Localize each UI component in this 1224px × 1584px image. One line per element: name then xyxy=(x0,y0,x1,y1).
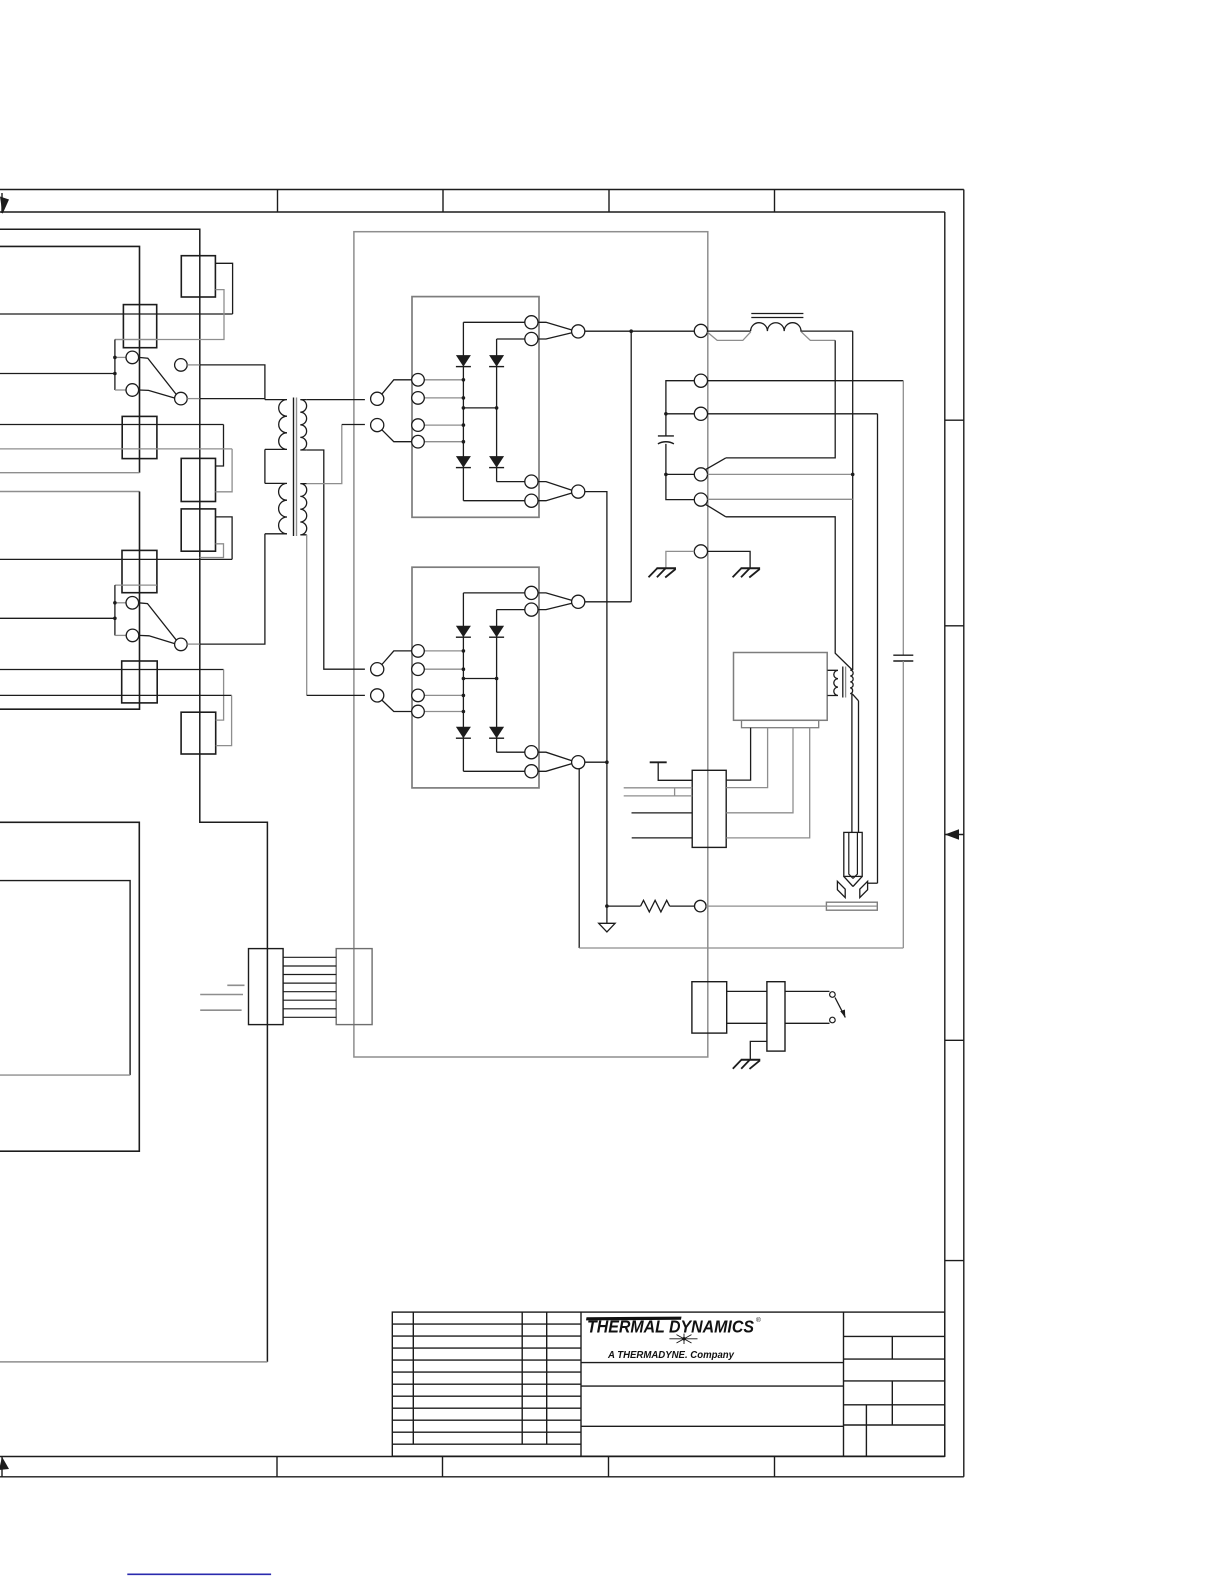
top band zone tick 4 xyxy=(774,190,776,213)
pilot network xyxy=(706,381,914,948)
blade BR1 mate1-in1 xyxy=(382,380,412,394)
drawing number cell line xyxy=(581,1425,844,1427)
capacitor C1 column xyxy=(658,381,694,500)
wire BR1 in stub3 xyxy=(424,424,463,426)
info divider b2 xyxy=(891,1381,893,1425)
electrode chevron right xyxy=(860,881,868,897)
input module enclosure outline xyxy=(0,229,267,1362)
hf transformer T2 xyxy=(827,667,858,833)
stub wire a xyxy=(227,984,244,986)
bridge rectifier BR2 xyxy=(371,567,585,788)
component box (lower-left outer) xyxy=(0,822,139,1151)
L1 core line 2 xyxy=(751,317,803,319)
wire TB2 row4 to J4 gray xyxy=(0,694,232,696)
T1 secondary lower winding xyxy=(300,484,306,535)
wire L1 tap drop xyxy=(726,340,835,458)
node C1 top tee xyxy=(664,412,668,416)
wire S2 link vertical xyxy=(114,585,116,635)
wire torch lead diagonal xyxy=(852,694,858,701)
pin BR1 out1 xyxy=(525,316,538,329)
node L1 end tap xyxy=(851,473,855,477)
node BR2 in1 xyxy=(462,649,466,653)
ground G2 bar xyxy=(741,567,761,569)
blade S2 B-D xyxy=(139,635,175,643)
wire J2 to K2 riser xyxy=(215,425,223,467)
ribbon connector left xyxy=(249,949,284,1025)
plasma torch TORCH1 xyxy=(826,832,877,910)
pin P6 earth xyxy=(694,545,707,558)
blade S2 A-D xyxy=(139,603,177,640)
wire S1-C stub to bus xyxy=(187,364,200,366)
wire P3 right xyxy=(708,413,878,415)
wire resistor lead right xyxy=(670,905,695,907)
ribbon wire 1 xyxy=(283,956,336,958)
switch body box xyxy=(767,982,785,1051)
wire T1 sec2 bottom drop xyxy=(306,535,308,696)
wire P4 stub xyxy=(666,473,694,475)
pin BR1 out3 xyxy=(525,475,538,488)
border top outer line xyxy=(0,189,964,191)
node S1 link junction A xyxy=(113,356,117,360)
wire cap drop lower xyxy=(902,661,904,948)
wire J1 to K1 riser xyxy=(215,263,232,314)
wire S2-D stub to bus xyxy=(187,643,200,645)
pin BR1 in2 xyxy=(412,392,425,405)
info divider b1 xyxy=(891,1336,893,1359)
relay K2 box xyxy=(181,458,215,501)
wire pos join drop xyxy=(630,331,632,602)
title block outline xyxy=(392,1312,945,1456)
wire torch lead 1 xyxy=(851,694,853,833)
logo starburst ray diag2 xyxy=(677,1335,692,1343)
wire BR2 top out xyxy=(463,592,524,594)
wire BR1 out2 stub xyxy=(497,338,525,340)
svg-text:®: ® xyxy=(756,1316,761,1324)
electrode chevron left xyxy=(837,881,845,897)
node pos join xyxy=(629,329,633,333)
wire BR2 bottom out xyxy=(463,770,524,772)
bottom-left zone arrow head xyxy=(0,1457,9,1470)
node BR2 in3 xyxy=(462,694,466,698)
torch tip right xyxy=(853,876,862,886)
wire T1 sec1 top to BR1 xyxy=(307,399,365,401)
wire TB2 row1 to J3 and K3 xyxy=(0,558,232,560)
wire BR2 out2 stub xyxy=(497,609,525,611)
wire resistor lead left xyxy=(607,905,641,907)
contact S1-B xyxy=(126,384,139,397)
blade BR2 out4-neg xyxy=(538,764,572,772)
pin BR1 out2 xyxy=(525,332,538,345)
logo starburst ray horizontal xyxy=(669,1338,697,1340)
blade BR1 out3-neg xyxy=(538,482,572,491)
diode D3 xyxy=(456,456,471,468)
wire CN1 pin1 to PCB1 xyxy=(726,728,750,780)
wire CN2 link 1 xyxy=(727,990,767,992)
wire P5 to T2 xyxy=(726,517,853,670)
info row 5 xyxy=(844,1424,945,1426)
svg-text:THERMAL DYNAMICS: THERMAL DYNAMICS xyxy=(587,1317,754,1337)
pin BR2 in2 xyxy=(412,663,425,676)
revision table bottom xyxy=(392,1443,581,1445)
L1 winding xyxy=(751,323,853,331)
node BR1 link left xyxy=(462,406,466,410)
node BR2 in2 xyxy=(462,667,466,671)
pin BR1 out4 xyxy=(525,494,538,507)
node BR2 link left xyxy=(462,677,466,681)
wire BR1 mate2 feed xyxy=(342,424,365,426)
inductor L1 xyxy=(706,314,855,671)
plug BR2 neg xyxy=(572,756,585,769)
ground G1 hatch 1 xyxy=(649,569,658,578)
wire S2 stub B xyxy=(115,634,126,636)
capacitor C2 plate 2 xyxy=(893,660,913,662)
wire torch lead 2 xyxy=(858,701,860,833)
ribbon wire 8 xyxy=(283,1016,336,1018)
relay K4 box xyxy=(181,712,216,754)
info row 4 xyxy=(844,1404,945,1406)
ground G2 hatch 1 xyxy=(733,569,742,578)
revision table column b xyxy=(521,1312,523,1444)
ribbon wire 2 xyxy=(283,965,336,967)
hyperlink underline xyxy=(127,1573,271,1575)
center module outline xyxy=(354,232,708,1057)
ribbon wire 3 xyxy=(283,974,336,976)
info divider a1 xyxy=(865,1405,867,1456)
relay K3 box xyxy=(181,509,215,551)
right border zone tick y1261 xyxy=(945,1260,964,1262)
ribbon wire 6 xyxy=(283,999,336,1001)
revision row 7 xyxy=(392,1395,581,1397)
wire P4 to L1 end xyxy=(708,473,853,475)
wire BR1 bottom out xyxy=(463,500,524,502)
ground G3 hatch 2 xyxy=(741,1060,750,1069)
pin BR2 in4 xyxy=(412,705,425,718)
pin BR1 in1 xyxy=(412,374,425,387)
connector J4 (lower block) xyxy=(122,661,158,703)
right border zone tick y626 xyxy=(945,625,964,627)
node C1 bottom tee xyxy=(664,473,668,477)
BR2 module box xyxy=(412,567,539,788)
capacitor C1 plate bottom xyxy=(658,442,674,444)
pin work sense xyxy=(695,900,707,912)
node BR2 in4 xyxy=(462,710,466,714)
wire BR2 branch1 xyxy=(462,593,464,771)
wire CN2 link 2 xyxy=(727,1022,767,1024)
relay K1 box xyxy=(181,256,215,297)
T2 secondary winding xyxy=(850,670,853,694)
diode D2 xyxy=(489,355,504,367)
blade BR2 out1-pos xyxy=(538,593,572,601)
border right inner line xyxy=(944,212,946,1457)
wire L1 bypass right xyxy=(801,332,835,341)
node S1 feed junction xyxy=(113,372,117,376)
wire switch lead 2 xyxy=(785,1022,830,1024)
contact S2-B xyxy=(126,629,139,642)
pin BR1 in4 xyxy=(412,435,425,448)
title block xyxy=(392,1312,945,1456)
node BR1 in2 xyxy=(462,396,466,400)
T2 core line 1 xyxy=(842,667,844,698)
wire BR1 in stub4 xyxy=(424,441,463,443)
border bottom outer line xyxy=(0,1476,964,1478)
info row 1 xyxy=(844,1335,945,1337)
connector CN2 box xyxy=(692,982,727,1033)
logo cell bottom xyxy=(581,1362,844,1364)
dc bus wiring xyxy=(579,329,694,948)
wire BR1 neg out xyxy=(585,492,607,906)
blade S1 B-D xyxy=(139,390,175,398)
wire S2 stub A xyxy=(115,602,126,604)
wire chevron to work lead xyxy=(868,882,878,884)
ribbon wire 7 xyxy=(283,1008,336,1010)
torch inner line 1 xyxy=(849,832,853,878)
blade PS arrowhead xyxy=(840,1010,845,1018)
wire BR2 ac link xyxy=(463,678,496,680)
wire C1 lower link xyxy=(666,444,694,500)
border bottom inner line xyxy=(0,1456,945,1458)
right border reference arrow head xyxy=(945,829,959,840)
ground G1 hatch 3 xyxy=(665,569,675,578)
wire T1 primary bottom to S2-D xyxy=(200,534,265,644)
wire BR1 branch2 xyxy=(496,339,498,482)
blade BR2 out3-neg xyxy=(538,752,572,761)
info row 2 xyxy=(844,1358,945,1360)
plug BR2 pos xyxy=(572,595,585,608)
wire BR2 in stub2 xyxy=(424,668,463,670)
top-left zone arrow stem xyxy=(1,193,3,213)
wire T1 sec1 bottom to BR2 xyxy=(307,450,365,669)
wire S1 stub B xyxy=(115,389,126,391)
BR1 module box xyxy=(412,297,539,518)
resistor R1 xyxy=(641,900,670,912)
wire BR2 neg drop xyxy=(578,769,580,948)
pin P5 xyxy=(694,493,707,506)
stub wire c xyxy=(200,1009,241,1011)
wire negative bus xyxy=(579,947,903,949)
blade BR1 out1-pos xyxy=(538,322,572,330)
wire TB2 row3 to J4 xyxy=(0,669,224,671)
plug BR1 mate1 xyxy=(371,392,384,405)
capacitor C2 plate 1 xyxy=(893,654,913,656)
wire K3 lower stub xyxy=(200,544,224,558)
blade BR1 out2-pos xyxy=(538,333,572,339)
wire L1 in xyxy=(708,330,751,332)
node neg join xyxy=(605,760,609,764)
blade BR1 mate2-in4 xyxy=(382,430,412,442)
terminal block TB1 (upper) xyxy=(0,246,140,472)
info row 3 xyxy=(844,1380,945,1382)
ground G3 hatch 1 xyxy=(733,1060,742,1069)
top band zone tick 1 xyxy=(277,190,279,213)
plug BR1 mate2 xyxy=(371,419,384,432)
revision row 5 xyxy=(392,1371,581,1373)
wire CN1 pin2 to PCB1 xyxy=(726,728,767,788)
pin BR2 out1 xyxy=(525,586,538,599)
wire S1 link vertical xyxy=(114,340,116,391)
switch S1 (voltage select upper) xyxy=(113,340,200,405)
pin BR1 in3 xyxy=(412,419,425,432)
bottom band zone tick 1 xyxy=(276,1457,278,1477)
logo top bar xyxy=(586,1317,682,1321)
revision table right edge xyxy=(580,1312,582,1456)
wire CN1 pin4 to PCB1 xyxy=(726,728,810,838)
revision row 10 xyxy=(392,1431,581,1433)
blade PS xyxy=(835,998,845,1018)
revision table column c xyxy=(546,1312,548,1444)
logo starburst center xyxy=(682,1337,685,1340)
wire T1 sec2 top from J2 feed xyxy=(307,425,342,484)
revision row 8 xyxy=(392,1407,581,1409)
wire BR1 branch1 xyxy=(462,322,464,500)
plug BR1 pos xyxy=(572,325,585,338)
thermistor probe bar xyxy=(650,761,667,763)
contact PS-2 xyxy=(830,1017,836,1023)
wire P6 left stub xyxy=(666,551,694,568)
pin P2 xyxy=(694,374,707,387)
contact S1-D common xyxy=(175,392,188,405)
revision row 1 xyxy=(392,1323,581,1325)
bridge rectifier BR1 xyxy=(371,297,585,518)
diode D6 xyxy=(489,626,504,638)
node BR2 link right xyxy=(495,677,499,681)
revision row 6 xyxy=(392,1383,581,1385)
terminal block TB2 (lower) xyxy=(0,492,140,710)
wire BR1 ac link xyxy=(463,407,496,409)
pin BR2 in1 xyxy=(412,645,425,658)
wire CN1 pin3 to PCB1 xyxy=(726,728,793,813)
node S2 feed junction xyxy=(113,617,117,621)
wire TB1 row1 to J1 xyxy=(0,313,233,315)
wire to work piece xyxy=(706,905,877,907)
wire bus top xyxy=(0,229,267,1362)
T2 core line 2 xyxy=(845,667,847,698)
earth connections xyxy=(649,551,761,577)
blade P4 upper xyxy=(706,458,726,470)
work piece bar xyxy=(826,902,877,910)
node BR1 link right xyxy=(495,406,499,410)
PCB1 box xyxy=(734,653,828,721)
wire BR1 in stub1 xyxy=(424,379,463,381)
connector J3 (lower block) xyxy=(122,550,157,592)
node BR1 in1 xyxy=(462,378,466,382)
wire BR1 in stub2 xyxy=(424,397,463,399)
control connector CN1 xyxy=(624,728,810,848)
wire S1-C to T1 primary top xyxy=(200,365,265,400)
torch tip left xyxy=(844,876,853,886)
plug BR1 neg xyxy=(572,485,585,498)
contact S1-C xyxy=(175,359,188,372)
T1 primary lower winding xyxy=(265,483,287,533)
main transformer T1 xyxy=(200,365,365,696)
wire CN1 in3 xyxy=(624,795,693,797)
component box (lower-left inner) xyxy=(0,881,130,1076)
T1 secondary upper winding xyxy=(300,400,306,450)
wire K3 riser xyxy=(216,517,233,560)
ribbon connector right xyxy=(336,949,372,1025)
ground G2 hatch 3 xyxy=(749,569,759,578)
wire BR2 neg out xyxy=(585,761,607,763)
wire work lead drop xyxy=(877,414,879,883)
revision row 3 xyxy=(392,1347,581,1349)
wire S1-D to T1 primary top xyxy=(200,398,265,400)
wire P2 right xyxy=(708,380,904,382)
ground G1 hatch 2 xyxy=(657,569,666,578)
pin P1 positive xyxy=(694,324,707,337)
connector J2 (upper block) xyxy=(122,416,157,458)
wire switch lead 1 xyxy=(785,990,830,992)
node BR1 in3 xyxy=(462,423,466,427)
connector J1 (upper block) xyxy=(123,305,156,348)
wire S2 link top jog xyxy=(115,584,157,586)
bottom band zone tick 3 xyxy=(608,1457,610,1477)
svg-text:A THERMADYNE. Company: A THERMADYNE. Company xyxy=(607,1349,735,1361)
wire P5 to L1 drop xyxy=(708,498,853,500)
wire J4 to K4 gray loop xyxy=(216,695,232,745)
wire enclosure bottom return xyxy=(0,1361,267,1363)
wire cap drop upper xyxy=(902,381,904,656)
wire earth arrow stem xyxy=(606,906,608,923)
bottom band zone tick 2 xyxy=(442,1457,444,1477)
wire T1 primary link xyxy=(264,449,266,483)
wire L1 bypass left xyxy=(708,332,751,341)
switch S2 (voltage select lower) xyxy=(113,585,200,651)
wire T1 sec2 to BR2 mate2 xyxy=(307,694,365,696)
T1 primary upper winding xyxy=(265,400,287,450)
T2 primary winding xyxy=(827,670,838,695)
wire TB1 row4 to J2 gray xyxy=(0,448,232,450)
wire CN1 in5 xyxy=(632,837,693,839)
wire BR1 pos out xyxy=(585,330,695,332)
border top inner line xyxy=(0,211,945,213)
right border zone tick y420 xyxy=(945,419,964,421)
blade BR2 mate1-in1 xyxy=(382,651,412,665)
ribbon wire 4 xyxy=(283,982,336,984)
drawing title cell line xyxy=(581,1385,844,1387)
wire P3 stub xyxy=(666,413,694,415)
pin BR2 out3 xyxy=(525,746,538,759)
pin BR2 out4 xyxy=(525,765,538,778)
wire switch earth xyxy=(750,1041,767,1059)
right border zone tick y1040 xyxy=(945,1039,964,1041)
earth arrow xyxy=(599,923,615,932)
wire S1-D stub to bus xyxy=(187,398,200,400)
top-left zone arrow head xyxy=(0,197,9,215)
top band zone tick 3 xyxy=(608,190,610,213)
contact S2-A xyxy=(126,597,139,610)
wire BR2 in stub1 xyxy=(424,650,463,652)
pin P4 xyxy=(694,468,707,481)
node S2 link junction A xyxy=(113,601,117,605)
output bulkhead connectors xyxy=(694,324,707,558)
wire TB2 feed to switch S2 xyxy=(0,617,115,619)
pin P3 work xyxy=(694,407,707,420)
blade S1 A-D xyxy=(139,357,177,394)
wire CN1 in4 xyxy=(632,812,693,814)
capacitor C1 plate top xyxy=(658,435,674,437)
wire P6 right stub xyxy=(708,551,751,568)
wire S1 link top jog xyxy=(115,339,157,341)
wire BR2 branch2 xyxy=(496,610,498,753)
node resistor tap xyxy=(605,904,609,908)
wire BR1 out3 stub xyxy=(497,481,525,483)
ground G3 hatch 3 xyxy=(750,1060,760,1069)
diode D5 xyxy=(456,626,471,638)
ribbon wire 5 xyxy=(283,991,336,993)
wire TB1 feed to switch S1 xyxy=(0,373,115,375)
plug BR2 mate2 xyxy=(371,689,384,702)
blade P5 xyxy=(706,504,726,516)
stub wire b xyxy=(200,994,243,996)
